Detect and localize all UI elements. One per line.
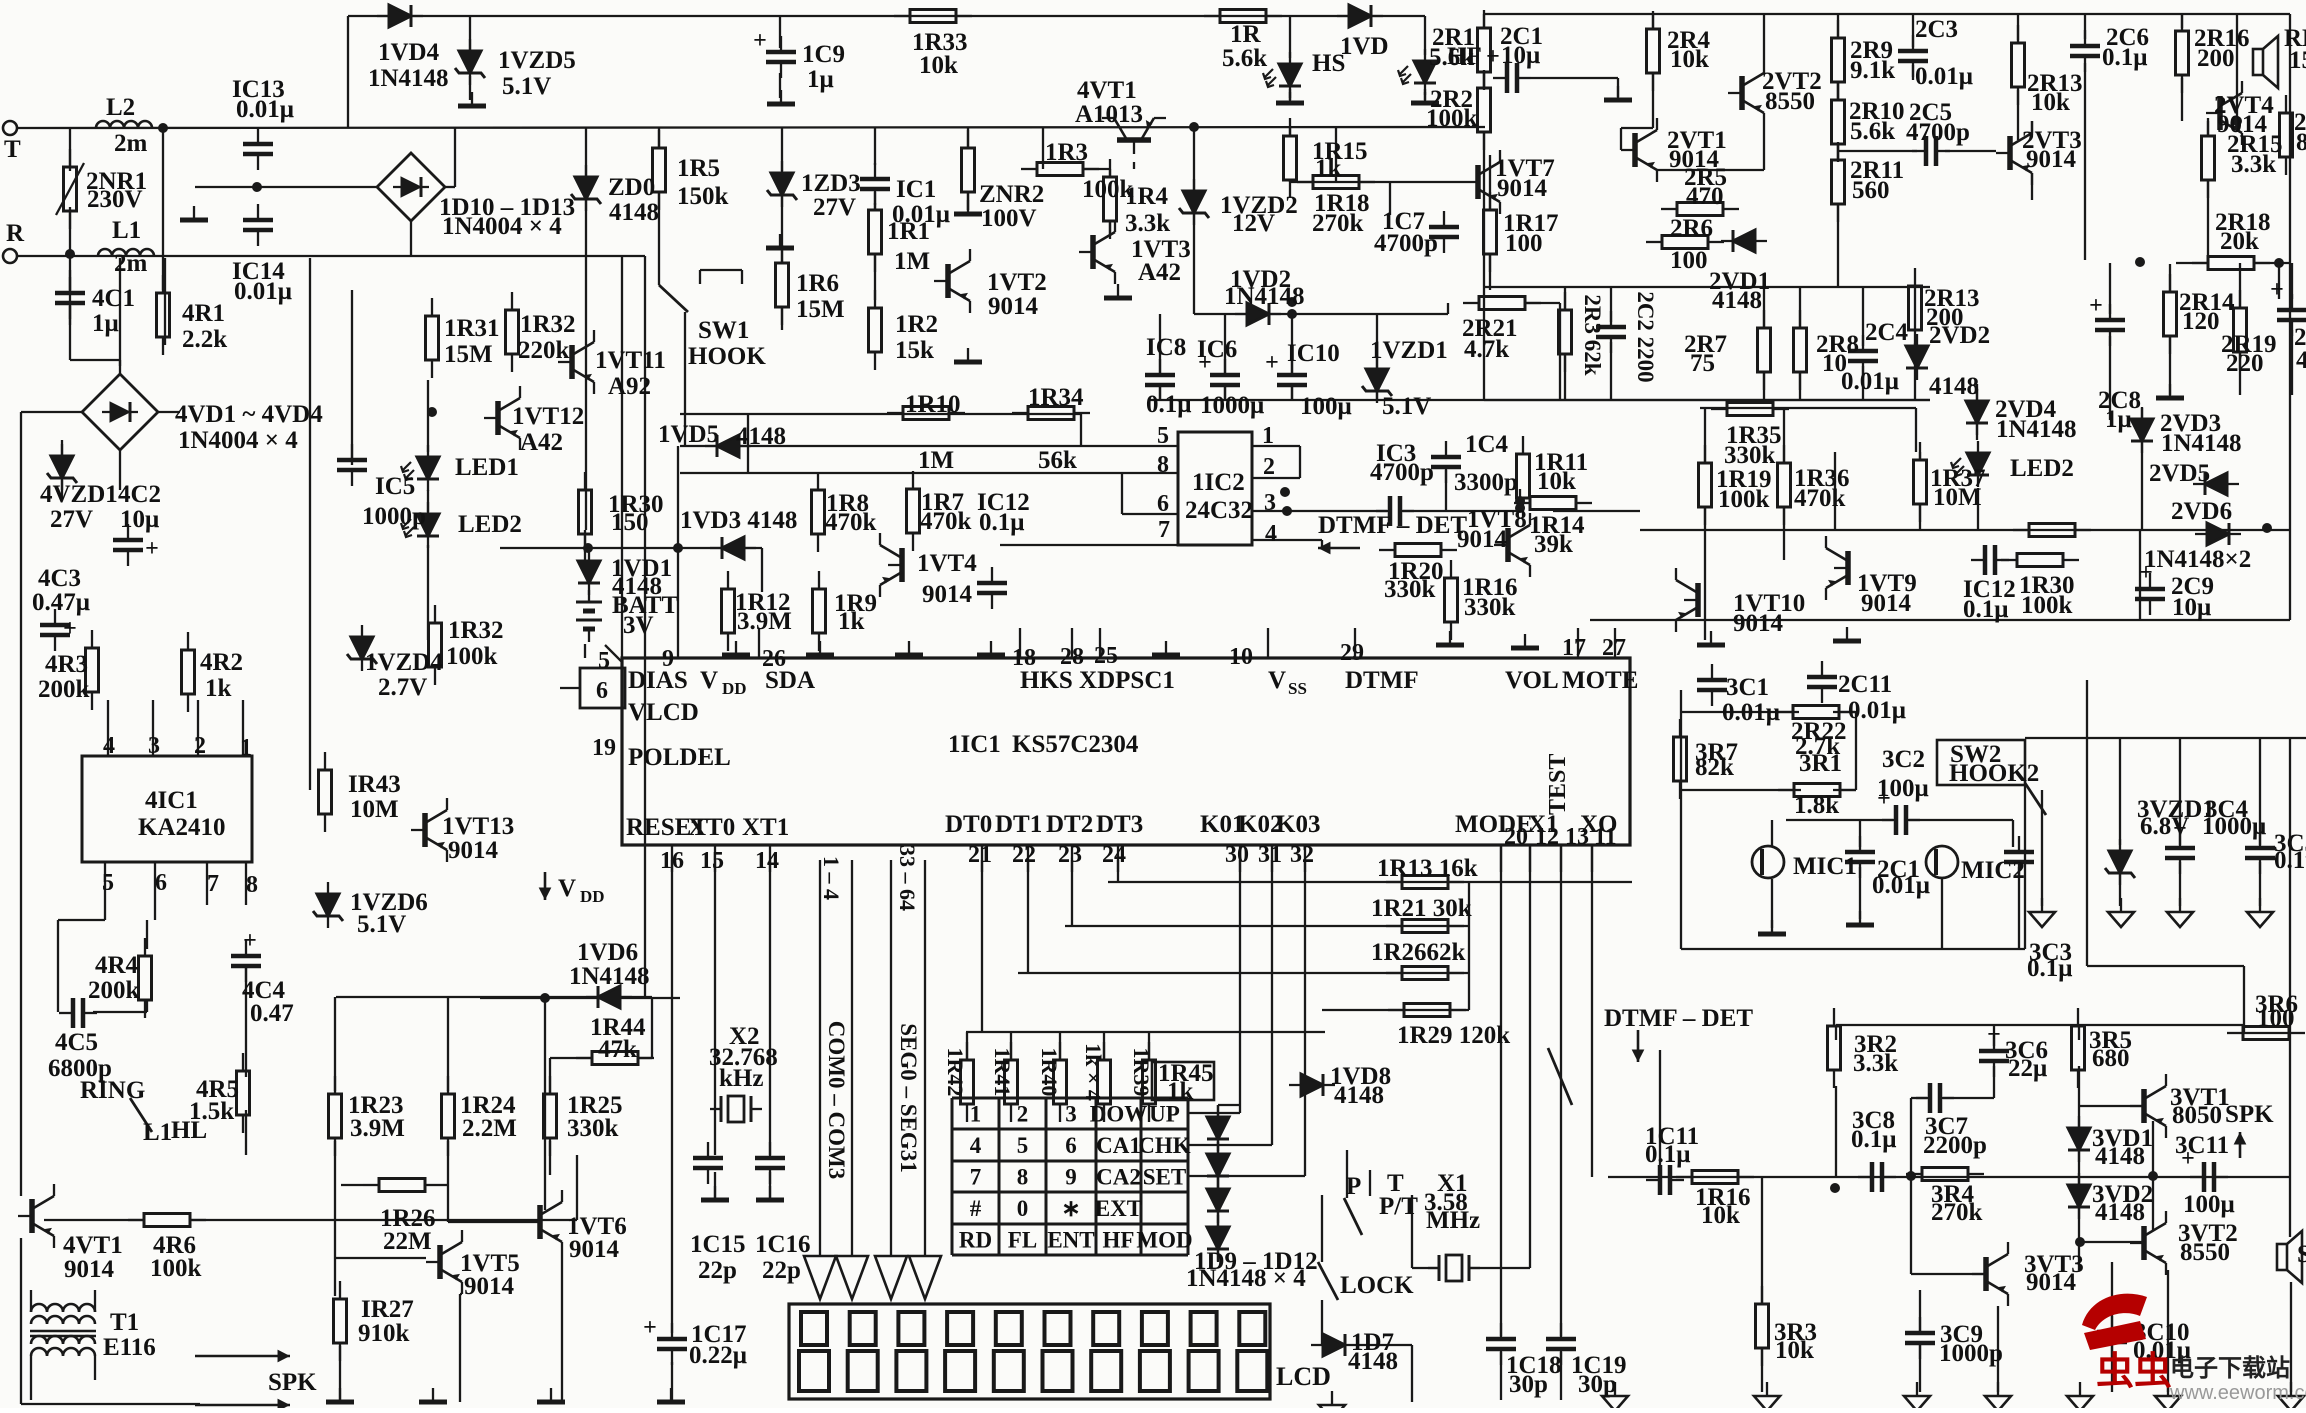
- svg-text:470k: 470k: [920, 508, 972, 535]
- svg-text:5.1V: 5.1V: [357, 911, 406, 938]
- svg-text:10k: 10k: [1537, 468, 1576, 495]
- svg-text:270k: 270k: [1931, 1199, 1983, 1226]
- svg-text:4700p: 4700p: [1370, 459, 1434, 486]
- svg-text:3C1: 3C1: [1726, 674, 1769, 701]
- svg-text:47k: 47k: [598, 1036, 637, 1063]
- svg-text:1k: 1k: [205, 675, 232, 702]
- svg-text:100k: 100k: [150, 1255, 202, 1282]
- svg-text:R: R: [6, 220, 25, 247]
- svg-text:9014: 9014: [1861, 590, 1912, 617]
- svg-text:4R3: 4R3: [45, 651, 88, 678]
- svg-text:100μ: 100μ: [1877, 775, 1929, 802]
- svg-text:9014: 9014: [2026, 1269, 2077, 1296]
- svg-text:9014: 9014: [2026, 146, 2077, 173]
- svg-text:1VZD1: 1VZD1: [1370, 337, 1448, 364]
- svg-text:1R3: 1R3: [1045, 139, 1088, 166]
- svg-text:3.9M: 3.9M: [737, 608, 792, 635]
- svg-text:4148: 4148: [2095, 1143, 2145, 1170]
- svg-text:6: 6: [1065, 1133, 1077, 1158]
- svg-text:1R: 1R: [1230, 21, 1262, 48]
- svg-text:0.1μ: 0.1μ: [1963, 596, 2008, 623]
- svg-text:1M: 1M: [918, 447, 954, 474]
- svg-text:V: V: [1268, 667, 1286, 694]
- svg-text:7: 7: [970, 1165, 982, 1190]
- svg-text:FL: FL: [1008, 1228, 1037, 1253]
- svg-text:10k: 10k: [919, 52, 958, 79]
- svg-text:MOTE: MOTE: [1562, 667, 1638, 694]
- svg-text:9: 9: [662, 646, 674, 672]
- svg-text:4: 4: [103, 733, 115, 759]
- svg-text:16: 16: [660, 848, 684, 874]
- svg-text:4IC1: 4IC1: [145, 787, 198, 814]
- svg-text:3.9M: 3.9M: [350, 1115, 405, 1142]
- svg-text:ZD0: ZD0: [608, 174, 655, 201]
- svg-text:3.3k: 3.3k: [2231, 151, 2276, 178]
- svg-text:V: V: [700, 667, 718, 694]
- svg-text:4C3: 4C3: [38, 565, 81, 592]
- svg-text:100V: 100V: [981, 205, 1037, 232]
- svg-text:24: 24: [1102, 842, 1126, 868]
- svg-text:MOD: MOD: [1136, 1228, 1192, 1253]
- svg-text:#: #: [970, 1196, 982, 1221]
- svg-text:2: 2: [194, 733, 206, 759]
- svg-text:1N4004 × 4: 1N4004 × 4: [442, 213, 562, 240]
- svg-text:IR43: IR43: [348, 771, 401, 798]
- svg-text:www.eeworm.com: www.eeworm.com: [2169, 1382, 2306, 1404]
- svg-text:+: +: [145, 536, 159, 562]
- svg-text:12: 12: [1535, 824, 1559, 850]
- svg-text:4VT1: 4VT1: [1077, 77, 1137, 104]
- svg-text:100: 100: [2257, 1005, 2295, 1032]
- svg-text:SPK: SPK: [268, 1369, 317, 1396]
- svg-text:LCD: LCD: [1276, 1362, 1331, 1391]
- svg-text:LED1: LED1: [455, 454, 519, 481]
- svg-text:E116: E116: [103, 1334, 156, 1361]
- svg-text:200k: 200k: [88, 977, 140, 1004]
- svg-text:LED2: LED2: [458, 511, 522, 538]
- svg-text:2VD2: 2VD2: [1929, 322, 1990, 349]
- svg-text:10μ: 10μ: [120, 506, 159, 533]
- svg-text:LED2: LED2: [2010, 455, 2074, 482]
- svg-text:4148: 4148: [1334, 1082, 1384, 1109]
- svg-text:1VZD4: 1VZD4: [365, 649, 443, 676]
- svg-text:1.8k: 1.8k: [1794, 792, 1839, 819]
- svg-text:SS: SS: [1288, 679, 1307, 698]
- svg-text:1C15: 1C15: [690, 1231, 746, 1258]
- svg-text:100μ: 100μ: [2183, 1191, 2235, 1218]
- svg-text:3: 3: [148, 733, 160, 759]
- svg-text:2.7V: 2.7V: [378, 674, 427, 701]
- svg-text:8.2k: 8.2k: [2296, 129, 2306, 156]
- svg-text:DTMF – DET: DTMF – DET: [1318, 512, 1467, 539]
- svg-text:1VT2: 1VT2: [987, 269, 1047, 296]
- svg-text:P: P: [1346, 1173, 1361, 1200]
- svg-text:0: 0: [1017, 1196, 1029, 1221]
- svg-text:1VT4: 1VT4: [917, 550, 977, 577]
- svg-text:4148: 4148: [1929, 373, 1979, 400]
- svg-text:560: 560: [1852, 177, 1890, 204]
- svg-text:9014: 9014: [448, 837, 499, 864]
- svg-text:100: 100: [1670, 247, 1708, 274]
- svg-text:1: 1: [240, 735, 252, 761]
- svg-text:2C4: 2C4: [1865, 319, 1909, 346]
- svg-text:IC10: IC10: [1287, 340, 1340, 367]
- svg-text:1C16: 1C16: [755, 1231, 811, 1258]
- svg-text:2: 2: [1263, 454, 1275, 480]
- svg-text:7: 7: [1158, 517, 1170, 543]
- svg-text:330k: 330k: [567, 1115, 619, 1142]
- svg-text:IC5: IC5: [375, 473, 415, 500]
- svg-text:0.1μ: 0.1μ: [1645, 1141, 1690, 1168]
- svg-text:0.47μ: 0.47μ: [32, 589, 90, 616]
- svg-text:EXT: EXT: [1095, 1196, 1142, 1221]
- svg-text:100k: 100k: [1426, 105, 1478, 132]
- svg-text:+: +: [63, 616, 77, 642]
- svg-text:+: +: [753, 28, 767, 54]
- svg-text:XT1: XT1: [742, 814, 789, 841]
- svg-text:15M: 15M: [444, 341, 493, 368]
- svg-text:10k: 10k: [1670, 46, 1709, 73]
- svg-text:4R4: 4R4: [95, 952, 139, 979]
- svg-text:8550: 8550: [1765, 88, 1815, 115]
- svg-text:0.1μ: 0.1μ: [2027, 955, 2072, 982]
- svg-text:3C11: 3C11: [2175, 1132, 2229, 1159]
- svg-text:IC6: IC6: [1197, 336, 1237, 363]
- svg-text:HOOK: HOOK: [688, 343, 766, 370]
- svg-text:1VT12: 1VT12: [512, 403, 584, 430]
- svg-text:5: 5: [102, 870, 114, 896]
- svg-text:1N4148: 1N4148: [1224, 283, 1305, 310]
- svg-text:+: +: [2270, 277, 2284, 303]
- svg-text:0.01μ: 0.01μ: [1841, 368, 1899, 395]
- svg-text:1000p: 1000p: [362, 503, 426, 530]
- svg-text:32: 32: [1290, 842, 1314, 868]
- svg-text:XT0: XT0: [688, 814, 735, 841]
- svg-text:DD: DD: [580, 887, 605, 906]
- svg-text:1k: 1k: [838, 608, 865, 635]
- svg-text:2C2 2200: 2C2 2200: [1633, 291, 1658, 382]
- svg-text:SPK: SPK: [2225, 1101, 2274, 1128]
- svg-text:470: 470: [1686, 183, 1724, 210]
- svg-text:100: 100: [1505, 230, 1543, 257]
- svg-text:26: 26: [762, 646, 786, 672]
- svg-text:1R2662k: 1R2662k: [1371, 939, 1466, 966]
- svg-text:5.1V: 5.1V: [502, 73, 551, 100]
- svg-text:5: 5: [598, 648, 610, 674]
- svg-text:3R1: 3R1: [1799, 750, 1842, 777]
- svg-text:TEST: TEST: [1545, 754, 1571, 815]
- svg-text:30p: 30p: [1578, 1371, 1617, 1398]
- svg-text:2m: 2m: [114, 130, 148, 157]
- svg-text:8: 8: [1017, 1165, 1029, 1190]
- svg-text:HKS XDPSC1: HKS XDPSC1: [1020, 667, 1175, 694]
- svg-text:5: 5: [1157, 423, 1169, 449]
- svg-text:0.01μ: 0.01μ: [1848, 697, 1906, 724]
- svg-text:2VD5: 2VD5: [2149, 460, 2210, 487]
- svg-text:100k: 100k: [446, 643, 498, 670]
- svg-text:27V: 27V: [50, 506, 93, 533]
- svg-text:RING: RING: [80, 1077, 145, 1104]
- svg-text:4C2: 4C2: [118, 481, 161, 508]
- svg-text:MIC2: MIC2: [1961, 857, 2025, 884]
- svg-text:1VD: 1VD: [1340, 33, 1389, 60]
- svg-text:29: 29: [1340, 640, 1364, 666]
- svg-text:4VD1 ~ 4VD4: 4VD1 ~ 4VD4: [175, 401, 323, 428]
- svg-text:3.3k: 3.3k: [1125, 210, 1170, 237]
- svg-text:HL: HL: [171, 1117, 207, 1144]
- svg-text:2200p: 2200p: [1923, 1132, 1987, 1159]
- svg-text:4148: 4148: [2095, 1199, 2145, 1226]
- svg-text:0.1μ: 0.1μ: [1851, 1126, 1896, 1153]
- svg-text:1N4148 × 4: 1N4148 × 4: [1186, 1265, 1306, 1292]
- svg-text:10k: 10k: [1775, 1337, 1814, 1364]
- svg-text:0.47: 0.47: [250, 1000, 294, 1027]
- svg-text:8: 8: [246, 872, 258, 898]
- svg-text:电子下载站: 电子下载站: [2170, 1355, 2290, 1382]
- svg-text:2m: 2m: [114, 250, 148, 277]
- svg-text:15k: 15k: [895, 337, 934, 364]
- svg-text:0.22μ: 0.22μ: [689, 1342, 747, 1369]
- svg-text:9014: 9014: [922, 581, 973, 608]
- svg-text:2VD6: 2VD6: [2171, 498, 2232, 525]
- svg-text:L1: L1: [112, 217, 141, 244]
- svg-text:9014: 9014: [988, 293, 1039, 320]
- svg-text:330k: 330k: [1724, 442, 1776, 469]
- svg-text:1R5: 1R5: [677, 155, 720, 182]
- svg-text:20: 20: [1504, 824, 1528, 850]
- svg-text:1C9: 1C9: [802, 41, 845, 68]
- svg-text:HF: HF: [1103, 1228, 1135, 1253]
- svg-text:DT1: DT1: [995, 811, 1042, 838]
- svg-text:CA1: CA1: [1096, 1133, 1141, 1158]
- svg-text:+: +: [643, 1315, 657, 1341]
- svg-text:0.1μ: 0.1μ: [979, 509, 1024, 536]
- svg-text:20k: 20k: [2220, 228, 2259, 255]
- svg-text:A42: A42: [520, 429, 563, 456]
- svg-text:1R32: 1R32: [520, 311, 576, 338]
- svg-text:25: 25: [1094, 643, 1118, 669]
- svg-text:22M: 22M: [383, 1228, 432, 1255]
- svg-text:100k: 100k: [1718, 486, 1770, 513]
- svg-text:2C11: 2C11: [1838, 671, 1892, 698]
- svg-text:IR27: IR27: [361, 1296, 414, 1323]
- svg-text:4148: 4148: [1348, 1348, 1398, 1375]
- svg-text:11: 11: [1594, 824, 1617, 850]
- svg-text:L2: L2: [106, 94, 135, 121]
- svg-text:∗: ∗: [1061, 1196, 1080, 1221]
- svg-text:39k: 39k: [1534, 531, 1573, 558]
- svg-text:1VT13: 1VT13: [442, 813, 514, 840]
- svg-text:A92: A92: [608, 373, 651, 400]
- svg-text:DT2: DT2: [1046, 811, 1093, 838]
- svg-text:33 – 64: 33 – 64: [895, 845, 920, 911]
- svg-text:200: 200: [2197, 45, 2235, 72]
- svg-text:1N4148×2: 1N4148×2: [2144, 546, 2251, 573]
- svg-text:1ZD3: 1ZD3: [801, 170, 861, 197]
- svg-text:3V: 3V: [623, 612, 654, 639]
- svg-text:POLDEL: POLDEL: [628, 744, 731, 771]
- svg-text:1VD5: 1VD5: [658, 421, 719, 448]
- svg-text:1VT11: 1VT11: [595, 347, 666, 374]
- svg-text:1k × 4: 1k × 4: [1081, 1043, 1106, 1101]
- svg-text:4: 4: [1265, 521, 1277, 547]
- svg-text:1 – 4: 1 – 4: [819, 856, 844, 900]
- svg-text:9014: 9014: [569, 1236, 620, 1263]
- svg-text:CA2: CA2: [1096, 1165, 1141, 1190]
- svg-text:2C3: 2C3: [1915, 16, 1958, 43]
- svg-text:1R41: 1R41: [990, 1048, 1015, 1097]
- svg-text:CHK: CHK: [1138, 1133, 1191, 1158]
- svg-text:1N4148: 1N4148: [1996, 416, 2077, 443]
- svg-text:15: 15: [700, 848, 724, 874]
- svg-text:10: 10: [1229, 644, 1253, 670]
- svg-text:4148: 4148: [736, 423, 786, 450]
- svg-text:4700p: 4700p: [1906, 119, 1970, 146]
- svg-text:21: 21: [968, 842, 992, 868]
- svg-text:28: 28: [1060, 644, 1084, 670]
- svg-text:2.2k: 2.2k: [182, 326, 227, 353]
- svg-text:9.1k: 9.1k: [1850, 57, 1895, 84]
- svg-text:IC8: IC8: [1146, 334, 1186, 361]
- svg-text:1R29 120k: 1R29 120k: [1397, 1022, 1510, 1049]
- svg-text:470k: 470k: [825, 509, 877, 536]
- svg-text:680: 680: [2092, 1045, 2130, 1072]
- svg-text:5: 5: [1017, 1133, 1029, 1158]
- svg-text:9014: 9014: [1733, 610, 1784, 637]
- svg-text:200k: 200k: [38, 676, 90, 703]
- svg-text:DTMF – DET: DTMF – DET: [1604, 1005, 1753, 1032]
- svg-text:4C1: 4C1: [92, 285, 135, 312]
- svg-text:T1: T1: [110, 1309, 139, 1336]
- svg-text:+: +: [1265, 350, 1279, 376]
- svg-text:1R34: 1R34: [1028, 384, 1084, 411]
- svg-text:DT3: DT3: [1096, 811, 1143, 838]
- svg-text:0.01μ: 0.01μ: [1915, 63, 1973, 90]
- svg-text:3C2: 3C2: [1882, 746, 1925, 773]
- svg-text:56k: 56k: [1038, 447, 1077, 474]
- svg-text:1R13 16k: 1R13 16k: [1377, 855, 1478, 882]
- svg-text:MHz: MHz: [1426, 1207, 1480, 1234]
- svg-text:150: 150: [2289, 47, 2306, 74]
- svg-text:1IC1: 1IC1: [948, 731, 1001, 758]
- svg-text:5.6k: 5.6k: [1850, 118, 1895, 145]
- svg-text:kHz: kHz: [719, 1065, 763, 1092]
- svg-text:10M: 10M: [350, 796, 399, 823]
- svg-text:230V: 230V: [87, 186, 143, 213]
- svg-text:150k: 150k: [677, 183, 729, 210]
- svg-text:COM0 – COM3: COM0 – COM3: [824, 1021, 849, 1179]
- svg-text:SPK: SPK: [2297, 1241, 2306, 1268]
- svg-text:1R1: 1R1: [887, 218, 930, 245]
- svg-text:100μ: 100μ: [1300, 393, 1352, 420]
- svg-text:1μ: 1μ: [2105, 406, 2132, 433]
- svg-text:0.01μ: 0.01μ: [234, 278, 292, 305]
- svg-text:10k: 10k: [2031, 89, 2070, 116]
- svg-text:VOL: VOL: [1505, 667, 1559, 694]
- svg-text:4148: 4148: [609, 199, 659, 226]
- svg-text:1000μ: 1000μ: [1200, 392, 1264, 419]
- svg-text:470k: 470k: [1794, 485, 1846, 512]
- svg-text:75: 75: [1690, 350, 1715, 377]
- svg-text:4C5: 4C5: [55, 1029, 98, 1056]
- svg-text:DTMF: DTMF: [1345, 667, 1419, 694]
- svg-text:1k: 1k: [1167, 1078, 1194, 1105]
- svg-text:9014: 9014: [464, 1273, 515, 1300]
- svg-text:6.8V: 6.8V: [2140, 813, 2189, 840]
- svg-text:1VD6: 1VD6: [577, 939, 638, 966]
- svg-text:2R6: 2R6: [1670, 215, 1713, 242]
- svg-text:100k: 100k: [2021, 592, 2073, 619]
- svg-text:270k: 270k: [1312, 210, 1364, 237]
- svg-text:DT0: DT0: [945, 811, 992, 838]
- svg-text:+: +: [2089, 293, 2103, 319]
- svg-text:IC1: IC1: [896, 176, 936, 203]
- svg-text:1VZD5: 1VZD5: [498, 47, 576, 74]
- svg-text:47μ: 47μ: [2296, 347, 2306, 374]
- svg-text:7: 7: [207, 871, 219, 897]
- svg-text:6: 6: [1157, 491, 1169, 517]
- svg-text:1R21 30k: 1R21 30k: [1371, 895, 1472, 922]
- svg-text:+: +: [1987, 1022, 2001, 1048]
- svg-text:K03: K03: [1276, 811, 1320, 838]
- svg-text:4R1: 4R1: [182, 300, 225, 327]
- svg-text:3: 3: [1264, 490, 1276, 516]
- svg-text:MIC1: MIC1: [1793, 853, 1857, 880]
- svg-text:A1013: A1013: [1075, 101, 1143, 128]
- svg-text:910k: 910k: [358, 1320, 410, 1347]
- svg-text:330k: 330k: [1464, 594, 1516, 621]
- svg-text:5.1V: 5.1V: [1382, 393, 1431, 420]
- svg-text:0.1μ: 0.1μ: [2102, 44, 2147, 71]
- svg-text:22μ: 22μ: [2008, 1055, 2047, 1082]
- svg-text:9014: 9014: [1497, 175, 1548, 202]
- svg-text:3.3k: 3.3k: [1853, 1050, 1898, 1077]
- svg-text:4.7k: 4.7k: [1464, 336, 1509, 363]
- svg-text:0.01μ: 0.01μ: [236, 96, 294, 123]
- svg-text:0.01μ: 0.01μ: [1722, 699, 1780, 726]
- svg-text:8050: 8050: [2172, 1102, 2222, 1129]
- svg-text:30: 30: [1225, 842, 1249, 868]
- svg-text:4700p: 4700p: [1374, 230, 1438, 257]
- svg-text:8550: 8550: [2180, 1239, 2230, 1266]
- svg-text:19: 19: [592, 735, 616, 761]
- svg-text:1R31: 1R31: [444, 315, 500, 342]
- svg-text:SW1: SW1: [698, 317, 749, 344]
- svg-text:1R2: 1R2: [895, 311, 938, 338]
- svg-text:SET: SET: [1143, 1165, 1186, 1190]
- svg-text:1N4148: 1N4148: [569, 963, 650, 990]
- svg-text:1R32: 1R32: [448, 617, 504, 644]
- svg-text:18: 18: [1012, 645, 1036, 671]
- svg-text:5.6k: 5.6k: [1429, 44, 1474, 71]
- svg-text:1k: 1k: [1315, 155, 1342, 182]
- svg-text:6: 6: [155, 870, 167, 896]
- svg-text:330k: 330k: [1384, 576, 1436, 603]
- svg-text:KS57C2304: KS57C2304: [1012, 731, 1139, 758]
- svg-text:10k: 10k: [1701, 1202, 1740, 1229]
- svg-text:10μ: 10μ: [1501, 42, 1540, 69]
- svg-text:0.1μ: 0.1μ: [1146, 391, 1191, 418]
- svg-text:1R4: 1R4: [1125, 183, 1169, 210]
- svg-text:V: V: [558, 875, 576, 902]
- svg-text:L1: L1: [143, 1119, 172, 1146]
- svg-text:1N4004 × 4: 1N4004 × 4: [178, 427, 298, 454]
- svg-text:DD: DD: [722, 679, 747, 698]
- svg-text:120: 120: [2182, 308, 2220, 335]
- svg-text:220: 220: [2226, 350, 2264, 377]
- svg-text:3300p: 3300p: [1454, 469, 1518, 496]
- svg-text:22p: 22p: [698, 1257, 737, 1284]
